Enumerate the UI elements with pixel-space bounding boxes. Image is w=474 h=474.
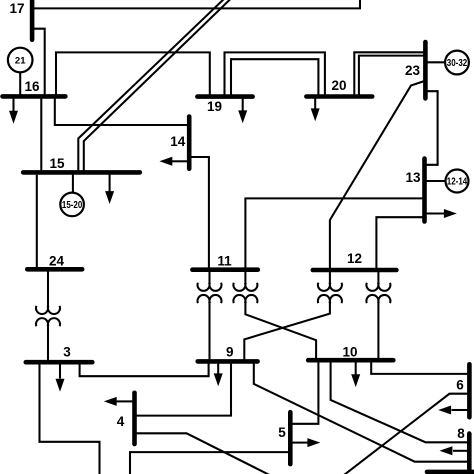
bus 23 bbox=[423, 42, 428, 98]
svg-text:13: 13 bbox=[405, 170, 421, 185]
bus 8 bbox=[467, 434, 472, 474]
load arrow bus 15 bbox=[105, 175, 114, 205]
svg-text:14: 14 bbox=[170, 134, 186, 149]
wire 16-14 bbox=[55, 98, 188, 125]
svg-text:23: 23 bbox=[405, 63, 421, 78]
load arrow bus 8 (left) bbox=[440, 446, 468, 455]
load arrow bus 3 bbox=[56, 364, 65, 392]
generator circle 30-32 bbox=[445, 51, 469, 75]
bus 24 bbox=[27, 267, 82, 272]
svg-text:20: 20 bbox=[331, 78, 346, 93]
load arrow bus 5 (right) bbox=[292, 438, 320, 447]
svg-text:19: 19 bbox=[207, 99, 222, 114]
load arrow bus 4 (left) bbox=[104, 397, 133, 406]
svg-text:8: 8 bbox=[457, 426, 465, 441]
svg-text:4: 4 bbox=[117, 414, 125, 429]
wire 16-19 bbox=[56, 52, 210, 94]
double circuit 20-23 (outer) bbox=[354, 52, 424, 94]
wire bus23 to gen 30-32 bbox=[428, 61, 447, 63]
bus 10 bbox=[308, 358, 393, 363]
svg-text:3: 3 bbox=[63, 345, 71, 360]
svg-text:17: 17 bbox=[9, 1, 24, 16]
generator circle 12-14 bbox=[446, 170, 469, 193]
svg-text:21: 21 bbox=[15, 56, 26, 67]
double circuit 19-20 (outer) bbox=[225, 52, 325, 94]
wire 23-12 (diagonal) bbox=[330, 81, 425, 268]
wire 17-22 (exits top) bbox=[34, 0, 360, 8]
bus 9 bbox=[198, 359, 258, 364]
double circuit 19-20 (inner) bbox=[231, 59, 318, 95]
wire 6-2 (exits bottom) bbox=[344, 394, 467, 474]
wire 4-9 bbox=[137, 364, 232, 416]
bus 13 bbox=[422, 159, 427, 222]
wire 17-16 bbox=[33, 29, 45, 95]
load arrow bus 16 bbox=[9, 98, 18, 124]
wire 9-8 bbox=[254, 364, 467, 462]
wire 4-2 (exits bottom) bbox=[137, 433, 270, 474]
double line 15-21 (circuit 2) bbox=[84, 0, 232, 171]
bus 17 bbox=[30, 0, 35, 40]
svg-text:30-32: 30-32 bbox=[447, 57, 467, 68]
svg-text:16: 16 bbox=[24, 79, 40, 94]
bus 3 bbox=[26, 360, 93, 365]
wire 15-24 bbox=[36, 175, 38, 267]
wire 5-1 (exits bottom) bbox=[130, 452, 289, 474]
svg-text:12-14: 12-14 bbox=[447, 176, 467, 187]
bus 19 bbox=[197, 94, 252, 99]
svg-text:10: 10 bbox=[342, 345, 357, 360]
wire bus15 to gen 15-20 bbox=[72, 175, 74, 193]
load arrow bus 9 bbox=[214, 363, 223, 386]
transformer 12-9 bbox=[244, 272, 342, 359]
generator circle 15-20 bbox=[60, 193, 84, 217]
wire gen21 to bus 16 bbox=[19, 72, 21, 94]
bus 5 bbox=[288, 412, 293, 464]
bus 15 bbox=[23, 170, 140, 175]
transformer 12-10 bbox=[366, 272, 390, 358]
bus 7 (cropped, bottom right) bbox=[427, 470, 474, 474]
wire 10-8 bbox=[331, 362, 468, 442]
wire bus13 to gen 12-14 bbox=[427, 180, 447, 182]
bus 20 bbox=[306, 94, 372, 99]
load arrow bus 13 (right) bbox=[427, 209, 457, 218]
load arrow bus 14 (left) bbox=[159, 157, 187, 166]
wire 23-13 bbox=[426, 91, 438, 165]
bus 11 bbox=[192, 267, 257, 272]
wire 12-13 bbox=[376, 217, 423, 268]
svg-text:5: 5 bbox=[278, 425, 286, 440]
load arrow bus 20 bbox=[311, 99, 320, 122]
bus 6 bbox=[467, 364, 472, 417]
load arrow bus 6 (left) bbox=[438, 406, 467, 415]
bus 14 bbox=[187, 117, 192, 169]
double circuit 20-23 (inner) bbox=[359, 56, 425, 95]
double line 15-21 (circuit 1) bbox=[78, 0, 225, 171]
svg-text:6: 6 bbox=[456, 378, 464, 393]
bus 12 bbox=[313, 268, 397, 273]
load arrow bus 19 bbox=[238, 99, 247, 124]
wire 10-6 bbox=[371, 362, 467, 374]
wire 16-15 bbox=[40, 98, 42, 171]
transformer 11-10 bbox=[233, 272, 316, 358]
svg-text:24: 24 bbox=[49, 254, 65, 269]
svg-text:15: 15 bbox=[49, 156, 65, 171]
svg-text:12: 12 bbox=[347, 251, 362, 266]
svg-text:9: 9 bbox=[226, 345, 234, 360]
wire 3-1 (exits bottom) bbox=[40, 365, 100, 474]
bus 4 bbox=[132, 393, 137, 444]
generator circle 21 bbox=[8, 48, 33, 73]
svg-text:11: 11 bbox=[217, 254, 232, 269]
wire 11-13 bbox=[245, 198, 423, 267]
transformer 24-3 bbox=[36, 272, 60, 361]
wire 14-11 bbox=[190, 157, 209, 268]
wire 3-9 bbox=[80, 364, 209, 377]
transformer 11-9 bbox=[198, 272, 222, 359]
load arrow bus 10 bbox=[351, 362, 360, 387]
bus 16 bbox=[3, 94, 66, 99]
wire 5-10 bbox=[292, 362, 318, 424]
svg-text:15-20: 15-20 bbox=[62, 199, 82, 210]
